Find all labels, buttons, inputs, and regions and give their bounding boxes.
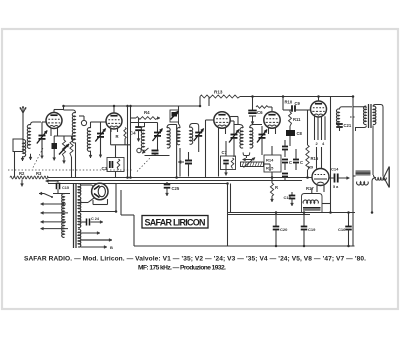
- wire right vertical A: [330, 97, 332, 213]
- resistor R16: [306, 110, 319, 178]
- IF3 primary winding: [234, 125, 246, 156]
- svg-text:C6: C6: [257, 110, 263, 115]
- variable capacitor C5b: [257, 126, 267, 155]
- IF1 tap terminal: [137, 148, 149, 153]
- svg-text:R2: R2: [19, 171, 25, 176]
- grid cap terminal: [79, 116, 87, 126]
- power transformer T1 primary: [62, 194, 65, 238]
- wire right vertical B: [352, 97, 354, 247]
- coil L2 oscillator: [64, 106, 76, 178]
- wire V3 grid drop: [205, 136, 207, 178]
- wire V3 legs: [219, 127, 226, 134]
- antenna: [20, 106, 26, 140]
- dashed gang link IF3: [120, 169, 132, 171]
- capacitor C6: [248, 97, 263, 125]
- caption line 1: [24, 256, 366, 263]
- svg-text:4: 4: [322, 141, 325, 146]
- svg-text:SAFAR LIRICON: SAFAR LIRICON: [145, 217, 206, 227]
- primary tap 1: [41, 203, 67, 206]
- T1 secondary 2: [78, 197, 81, 212]
- IF1 primary winding: [141, 123, 169, 156]
- svg-text:C16: C16: [338, 227, 346, 232]
- svg-text:C18: C18: [284, 195, 292, 200]
- svg-text:R3: R3: [36, 171, 42, 176]
- coil L1b: [27, 122, 41, 160]
- IF2 bottom capacitor: [178, 152, 192, 177]
- secondary tap arrow 3: [81, 245, 114, 250]
- svg-text:C4: C4: [130, 131, 136, 136]
- chassis link: [78, 211, 116, 213]
- svg-text:R15: R15: [266, 166, 274, 171]
- IF2 trimmer: [194, 129, 204, 153]
- capacitor C8 (bold): [286, 130, 303, 146]
- wire antenna box to R2 rail: [14, 152, 16, 178]
- svg-text:R14: R14: [266, 158, 274, 163]
- IF1 trimmer: [153, 123, 163, 151]
- svg-text:5 a: 5 a: [333, 185, 339, 189]
- SAFAR LIRICON plate: [142, 216, 208, 229]
- T1 secondary 1: [78, 184, 81, 196]
- wire plate supply top: [200, 97, 353, 107]
- resistor R11: [289, 110, 302, 130]
- wire top bus +B: [64, 105, 201, 107]
- svg-text:SAFAR RADIO. — Mod. Liricon. —: SAFAR RADIO. — Mod. Liricon. — Valvole: …: [24, 256, 366, 263]
- dashed gang link IF1: [137, 158, 150, 172]
- T1 secondary 3: [78, 213, 81, 228]
- caption line 2: [138, 265, 226, 272]
- svg-text:R10: R10: [285, 100, 293, 105]
- resistor R13: [200, 90, 240, 99]
- speaker field choke: [353, 171, 371, 185]
- capacitor C9: [283, 101, 310, 112]
- capacitor C18: [283, 192, 295, 206]
- wire IF1 top: [131, 122, 158, 124]
- svg-text:C25: C25: [172, 186, 180, 191]
- tube V2: [106, 106, 122, 129]
- resistor R17: [270, 178, 278, 203]
- primary tap 2: [41, 211, 69, 214]
- wire R10 to V4 cap: [268, 106, 272, 108]
- coil L3: [87, 122, 92, 158]
- dashed gang link C1: [33, 148, 43, 168]
- T2 left connections: [353, 107, 366, 131]
- cathode resistor R5: [111, 128, 131, 145]
- resistor R2a: [59, 136, 69, 164]
- svg-text:B: B: [110, 245, 113, 250]
- capacitor C10: [282, 140, 288, 157]
- output transformer T2: [364, 104, 376, 128]
- capacitor C14: [329, 167, 350, 190]
- capacitor C19: [301, 213, 316, 247]
- wire V5 legs: [315, 116, 326, 146]
- bottom bus: [134, 245, 355, 247]
- mains switch: [39, 192, 70, 198]
- wire C1 to V1 grid: [42, 121, 47, 123]
- snubber coil: [336, 107, 352, 131]
- capacitor C25 ground: [164, 184, 180, 197]
- svg-text:C: C: [300, 160, 303, 165]
- wire C3 box drop: [115, 172, 117, 178]
- capacitor C3 network: [102, 146, 125, 172]
- wire R13 drop: [282, 97, 284, 111]
- bus wire 2: [48, 180, 302, 182]
- capacitor C7: [223, 161, 229, 176]
- wire screen feeds: [128, 106, 131, 178]
- T2 right connections: [373, 105, 383, 177]
- bias box under V1: [54, 136, 72, 140]
- variable capacitor C2: [95, 122, 105, 158]
- T2 middle tap: [350, 116, 356, 118]
- wire V7 plate loop: [108, 184, 116, 212]
- svg-text:R16: R16: [311, 156, 319, 161]
- svg-text:R11: R11: [293, 117, 301, 122]
- IF3 secondary winding: [246, 125, 262, 159]
- bus wire lower: [228, 213, 356, 215]
- variable capacitor C1: [37, 122, 47, 159]
- resistor R12: [231, 158, 234, 169]
- svg-text:C21: C21: [344, 123, 352, 128]
- svg-text:MF: 175 kHz. — Produzione 1932: MF: 175 kHz. — Produzione 1932.: [138, 265, 226, 272]
- volume potentiometer: [241, 158, 271, 172]
- wire V4 legs: [269, 127, 276, 134]
- svg-text:R: R: [116, 134, 119, 139]
- cathode network box V3: [221, 141, 236, 170]
- svg-text:C7: C7: [222, 150, 228, 155]
- rheostat R2 wavy: [10, 171, 48, 187]
- svg-text:C14: C14: [331, 167, 339, 172]
- capacitor C4: [130, 118, 142, 142]
- IF1 bottom capacitor: [152, 151, 159, 156]
- wire V3 grid: [206, 97, 214, 137]
- tube V6: [308, 165, 329, 186]
- variable capacitor C5: [229, 121, 239, 157]
- tube V1: [46, 110, 64, 129]
- capacitor C12: [293, 149, 303, 170]
- secondary tap arrow 1: [81, 232, 101, 235]
- resistor R2b: [70, 136, 73, 178]
- field choke unit: [302, 186, 331, 212]
- svg-text:C20: C20: [280, 227, 288, 232]
- coil L1a: [21, 140, 26, 161]
- svg-text:C9: C9: [295, 101, 301, 106]
- wire AVC verticals: [228, 184, 231, 247]
- IF1 secondary winding: [167, 125, 177, 149]
- wire V3 leg drop: [218, 134, 220, 177]
- IF2 secondary winding: [190, 124, 199, 145]
- wire T1 to V7 fil 1: [81, 185, 94, 187]
- svg-text:2: 2: [316, 141, 319, 146]
- tube V3: [214, 112, 230, 128]
- capacitor C13: [282, 174, 288, 181]
- wire V2 legs: [111, 128, 118, 133]
- resistor R3: [131, 110, 160, 119]
- capacitor C16: [338, 213, 352, 247]
- svg-text:C8: C8: [297, 131, 303, 136]
- secondary tap arrow 2: [81, 239, 113, 242]
- bus wire 3: [48, 183, 228, 185]
- svg-text:C: C: [289, 160, 292, 165]
- wire L3 to V2 grid: [91, 121, 107, 123]
- capacitor C20: [273, 213, 288, 247]
- wire V3 plate: [230, 117, 238, 125]
- rectifier V7: [92, 183, 108, 199]
- T1 core: [74, 183, 77, 248]
- wire IF1 to grid bus: [177, 125, 180, 177]
- wire V6 legs: [317, 185, 324, 192]
- svg-text:R17: R17: [306, 186, 314, 191]
- wire V7 cathode: [81, 198, 95, 203]
- antenna coupler box: [13, 139, 23, 152]
- IF2 primary winding: [177, 122, 180, 152]
- resistor R1 (bold): [52, 136, 58, 161]
- svg-text:R4: R4: [144, 110, 150, 115]
- svg-text:R13: R13: [214, 90, 223, 95]
- svg-text:C15: C15: [62, 186, 69, 190]
- primary tap 4: [41, 227, 69, 230]
- IF2 input trimmer: [170, 106, 179, 122]
- tube V5: [311, 97, 327, 118]
- grid resistor box R14 R15: [264, 146, 281, 178]
- resistor R10: [256, 100, 293, 109]
- svg-text:C19: C19: [308, 227, 316, 232]
- primary tap 3: [41, 220, 67, 223]
- capacitor C24: [81, 217, 104, 226]
- T1 secondary 4: [78, 229, 81, 247]
- svg-text:R: R: [275, 185, 278, 190]
- loudspeaker: [372, 167, 389, 213]
- bus wire 1: [48, 177, 312, 179]
- wire V1 legs: [51, 128, 58, 137]
- B+ rail corner: [121, 190, 134, 246]
- wire V5 filament drops: [317, 147, 322, 169]
- ganging dashed line: [8, 169, 118, 171]
- tube V4: [264, 107, 280, 128]
- capacitor C11: [282, 160, 292, 171]
- svg-text:C 24: C 24: [91, 217, 100, 221]
- V7 socket: [93, 199, 108, 205]
- capacitor C15: [46, 180, 69, 194]
- svg-text:R9: R9: [308, 165, 314, 170]
